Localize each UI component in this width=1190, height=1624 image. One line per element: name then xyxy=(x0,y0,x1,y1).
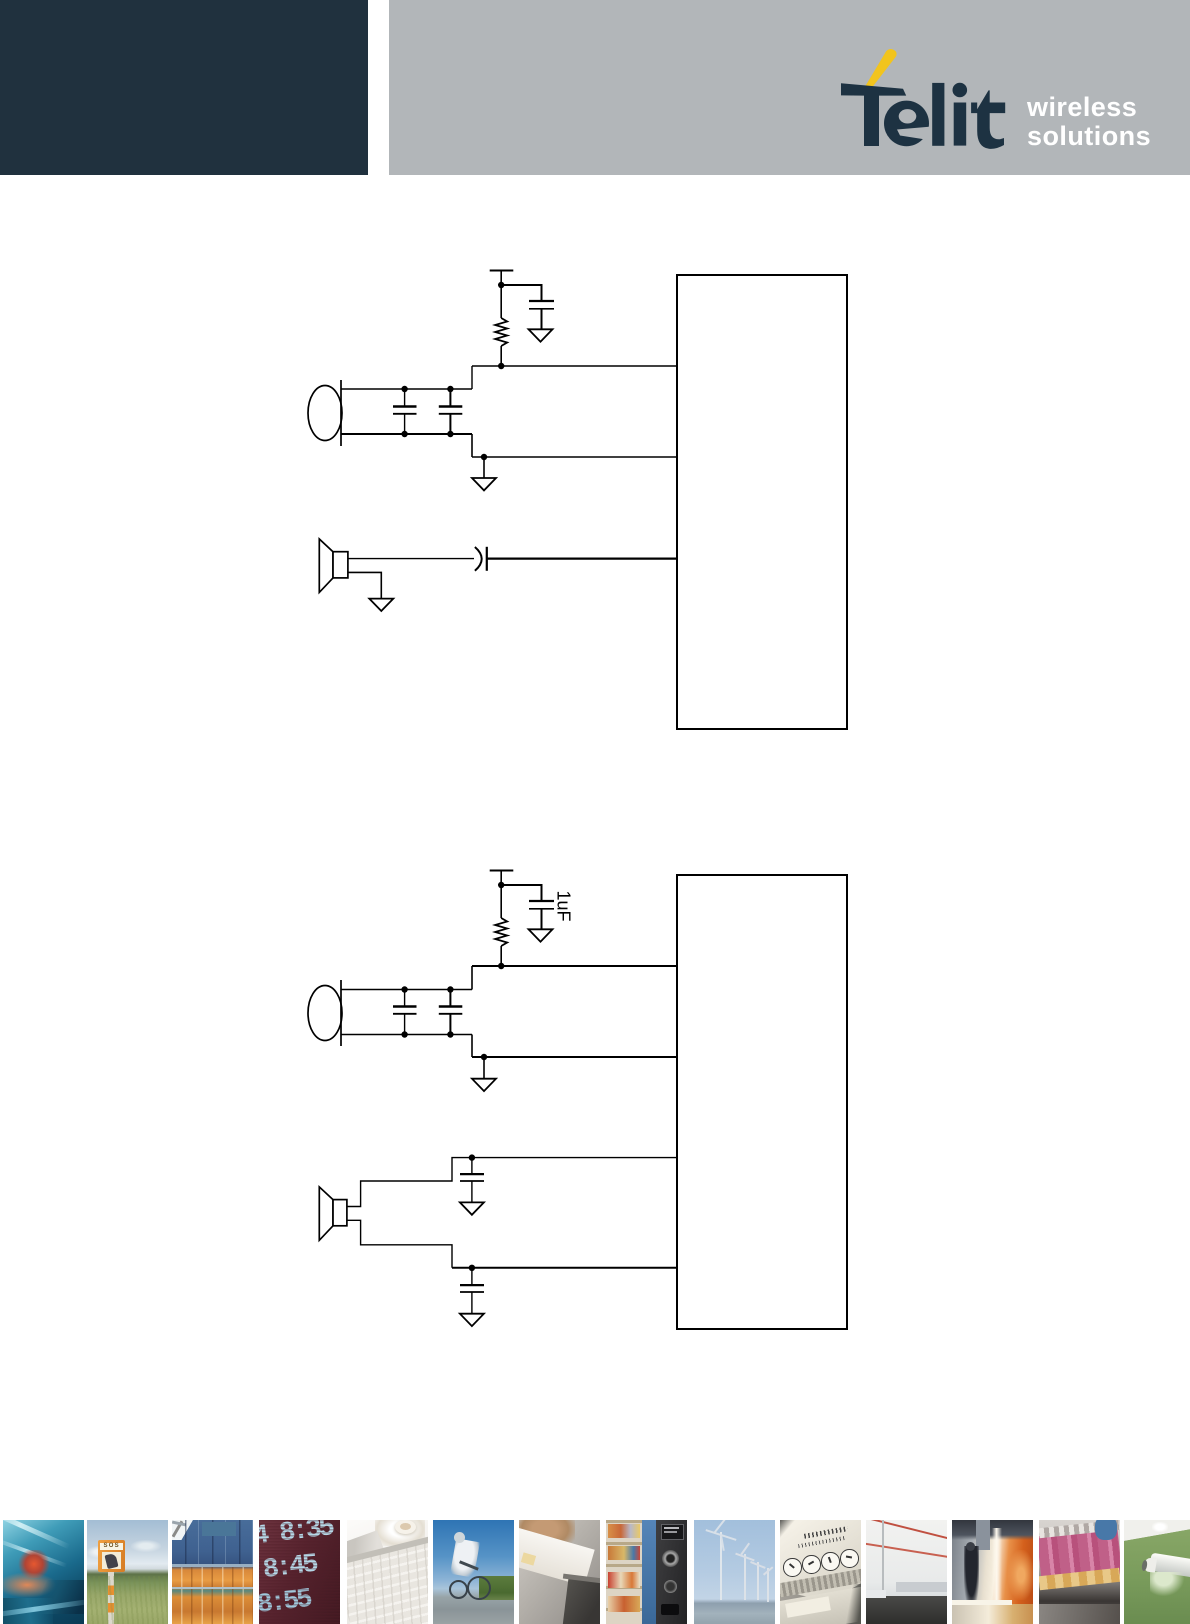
wire supply vertical xyxy=(500,271,502,319)
photo 3 containers xyxy=(172,1520,253,1624)
node MIC- ground junction xyxy=(481,1054,487,1060)
photo 9 wind turbines xyxy=(694,1520,775,1624)
wire speaker to capacitor xyxy=(348,558,474,560)
module block U1 xyxy=(677,275,847,729)
ground speaker xyxy=(369,599,393,611)
node MIC- ground junction xyxy=(481,454,487,460)
Telit logo xyxy=(830,40,1020,160)
capacitor C1 bypass xyxy=(529,300,554,302)
logo letter t xyxy=(971,90,1005,148)
header navy block xyxy=(0,0,368,175)
logo letter T xyxy=(841,83,906,146)
photo 4 led clock xyxy=(259,1520,340,1624)
node supply junction xyxy=(498,882,504,888)
wire microphone top xyxy=(341,388,472,390)
photo 2 SOS phone xyxy=(87,1520,168,1624)
wire speaker to ground xyxy=(348,572,381,598)
photo 12 train station xyxy=(952,1520,1033,1624)
wire MIC- to module xyxy=(472,456,677,458)
speaker LS2 body xyxy=(333,1200,347,1226)
microphone MT2 xyxy=(308,986,342,1041)
footer photo strip xyxy=(0,1520,1190,1624)
logo letter l xyxy=(932,83,944,146)
module block U2 xyxy=(677,875,847,1329)
node MIC+ junction xyxy=(498,963,504,969)
node EAR- junction xyxy=(469,1265,475,1271)
photo 14 camera (cropped at page edge) xyxy=(1124,1520,1190,1624)
logo letter i xyxy=(953,83,968,146)
wire MIC+ to module xyxy=(472,365,677,367)
wire resistor to MIC+ node xyxy=(500,946,502,966)
photo 7 card ATM xyxy=(519,1520,600,1624)
wire MIC+ to module xyxy=(472,965,677,967)
photo 1 traffic xyxy=(3,1520,84,1624)
ground under C9 xyxy=(460,1314,484,1326)
photo 5 laptop xyxy=(347,1520,428,1624)
speaker LS1 body xyxy=(333,552,348,578)
logo letter e xyxy=(884,101,932,147)
ground under C1 xyxy=(529,329,553,341)
photo 13 bottling line xyxy=(1039,1520,1120,1624)
resistor R2 mic bias xyxy=(495,918,507,946)
wire microphone bottom xyxy=(341,433,472,435)
ground under C5 xyxy=(529,929,553,941)
photo 6 cyclist xyxy=(433,1520,514,1624)
microphone MT1 xyxy=(308,386,342,441)
wire step MIC- xyxy=(471,1035,473,1058)
logo tagline: wireless solutions xyxy=(1027,93,1187,151)
resistor R1 mic bias xyxy=(495,318,507,346)
wire to ground xyxy=(483,1057,485,1079)
photo 11 window bridge xyxy=(866,1520,947,1624)
wire resistor to MIC+ node xyxy=(500,346,502,366)
svg-text:1uF: 1uF xyxy=(554,890,574,921)
speaker LS1 horn xyxy=(319,539,333,592)
capacitor C3 xyxy=(449,389,451,434)
supply rail bar (VBATT) xyxy=(490,870,514,872)
wire step MIC+ xyxy=(471,966,473,990)
photo 10 kWh meter xyxy=(780,1520,861,1624)
wire EAR- path xyxy=(347,1220,452,1268)
wire to ground xyxy=(483,457,485,478)
capacitor C4 series (polarized) xyxy=(475,547,482,571)
wire microphone bottom xyxy=(341,1034,472,1036)
wire MIC- to module xyxy=(472,1056,677,1058)
node MIC+ junction xyxy=(498,363,504,369)
capacitor C9 xyxy=(471,1268,473,1314)
photo 8 vending machine xyxy=(606,1520,687,1624)
header gray band xyxy=(389,0,1190,175)
wire supply vertical xyxy=(500,871,502,919)
node EAR+ junction xyxy=(469,1154,475,1160)
node supply junction xyxy=(498,282,504,288)
wire step MIC+ xyxy=(471,366,473,389)
wire EAR+ path xyxy=(347,1158,677,1207)
capacitor C7 xyxy=(449,990,451,1035)
capacitor C2 xyxy=(404,389,406,434)
speaker LS2 horn xyxy=(319,1187,333,1240)
capacitor C5 bypass 1uF xyxy=(529,900,554,902)
ground under C8 xyxy=(460,1202,484,1214)
capacitor C6 xyxy=(404,990,406,1035)
ground MIC- xyxy=(472,1079,496,1091)
wire microphone top xyxy=(341,989,472,991)
wire step MIC- xyxy=(471,434,473,457)
wire branch to bypass capacitor xyxy=(501,885,541,901)
wire capacitor to module EAR xyxy=(487,557,677,559)
logo yellow accent xyxy=(866,49,897,88)
wire branch to bypass capacitor xyxy=(501,285,541,301)
capacitor C8 xyxy=(471,1158,473,1203)
supply rail bar (VBATT) xyxy=(490,270,514,272)
ground MIC- xyxy=(472,478,496,490)
